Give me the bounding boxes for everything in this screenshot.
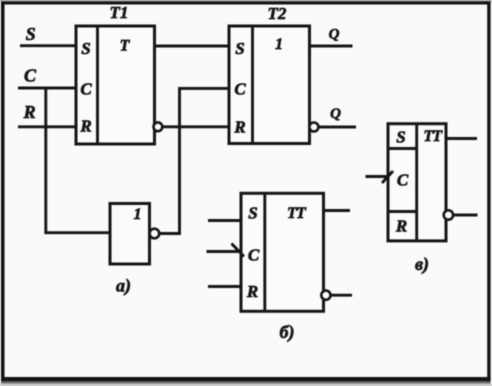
T1 inverted output circle bbox=[154, 122, 163, 131]
wire Qbar output (b) bbox=[331, 294, 353, 297]
wire S input stub (b) bbox=[208, 219, 241, 222]
svg-text:C: C bbox=[234, 80, 246, 99]
flip-flop T1 bbox=[76, 3, 155, 144]
wire C input stub (b) bbox=[207, 250, 242, 253]
wire Q output bbox=[310, 45, 353, 48]
svg-text:C: C bbox=[24, 66, 37, 86]
wire Qbar output (v) bbox=[453, 214, 477, 217]
svg-text:S: S bbox=[248, 204, 257, 223]
wire C input stub (v) bbox=[366, 175, 389, 178]
wire Qbar output bbox=[318, 126, 356, 129]
inverter gate 1 bbox=[110, 204, 150, 265]
svg-text:1: 1 bbox=[275, 36, 283, 53]
svg-text:R: R bbox=[233, 118, 245, 137]
svg-text:R: R bbox=[79, 117, 91, 136]
wire T1.Q to T2.S bbox=[155, 45, 230, 48]
dynamic input marker on C (b) bbox=[232, 244, 245, 257]
svg-text:в): в) bbox=[415, 254, 429, 275]
TT inverted output circle (v) bbox=[444, 210, 453, 219]
svg-text:а): а) bbox=[116, 276, 131, 297]
svg-text:Q: Q bbox=[329, 27, 340, 43]
T2 inverted output circle bbox=[309, 123, 318, 132]
flip-flop T2 bbox=[229, 4, 310, 144]
svg-text:C: C bbox=[80, 80, 92, 99]
TT inverted output circle (b) bbox=[321, 291, 330, 300]
wire S input bbox=[20, 44, 76, 47]
svg-text:TT: TT bbox=[287, 205, 307, 222]
svg-text:T2: T2 bbox=[268, 4, 287, 23]
svg-text:S: S bbox=[26, 24, 36, 44]
wire T1.Qbar to T2.R bbox=[163, 125, 229, 128]
svg-text:Q: Q bbox=[330, 106, 341, 122]
svg-text:S: S bbox=[81, 39, 90, 58]
svg-text:б): б) bbox=[280, 322, 295, 343]
svg-text:TT: TT bbox=[423, 128, 443, 145]
wire R input stub (b) bbox=[208, 285, 241, 288]
svg-text:R: R bbox=[395, 217, 407, 236]
svg-text:S: S bbox=[396, 128, 405, 147]
svg-text:S: S bbox=[235, 39, 244, 58]
flip-flop TT (figure v) bbox=[388, 124, 446, 241]
flip-flop TT (figure b) bbox=[241, 193, 324, 311]
svg-text:C: C bbox=[397, 171, 409, 190]
wire inverter output to T2.C bbox=[159, 88, 229, 233]
svg-text:R: R bbox=[23, 102, 36, 122]
wire Q output (b) bbox=[324, 209, 351, 212]
wire C input bbox=[18, 87, 76, 90]
wire Q output (v) bbox=[446, 137, 477, 140]
svg-text:1: 1 bbox=[134, 206, 142, 223]
wire R input bbox=[18, 125, 76, 128]
svg-text:C: C bbox=[248, 246, 260, 265]
dynamic input marker on C (v) bbox=[382, 171, 393, 183]
svg-text:T: T bbox=[120, 38, 131, 55]
inverter output circle bbox=[150, 229, 160, 239]
svg-text:T1: T1 bbox=[110, 3, 129, 22]
wire C branch down to inverter bbox=[46, 87, 110, 233]
svg-text:R: R bbox=[246, 282, 258, 301]
